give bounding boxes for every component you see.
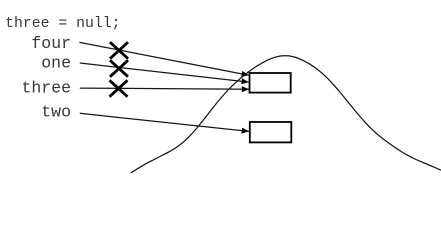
- arrowhead three: [242, 86, 249, 92]
- wire one to object 1: [80, 63, 249, 82]
- wire two to object 2: [80, 113, 249, 131]
- arrowhead two: [241, 128, 248, 134]
- X mark on wire one: [110, 60, 128, 76]
- arrowhead one: [241, 78, 248, 84]
- svg-text:three: three: [21, 78, 71, 97]
- svg-text:one: one: [41, 53, 71, 72]
- object box 2: [250, 122, 291, 142]
- arrowhead four: [241, 71, 249, 77]
- svg-text:two: two: [41, 103, 71, 122]
- X mark on wire four: [110, 42, 128, 58]
- wire three to object 1: [80, 88, 249, 89]
- object box 1: [250, 73, 291, 93]
- svg-text:three = null;: three = null;: [5, 16, 120, 32]
- wire four to object 1: [80, 42, 249, 75]
- X mark on wire three: [110, 80, 128, 96]
- svg-text:four: four: [31, 34, 71, 53]
- heap boundary curve: [131, 56, 441, 173]
